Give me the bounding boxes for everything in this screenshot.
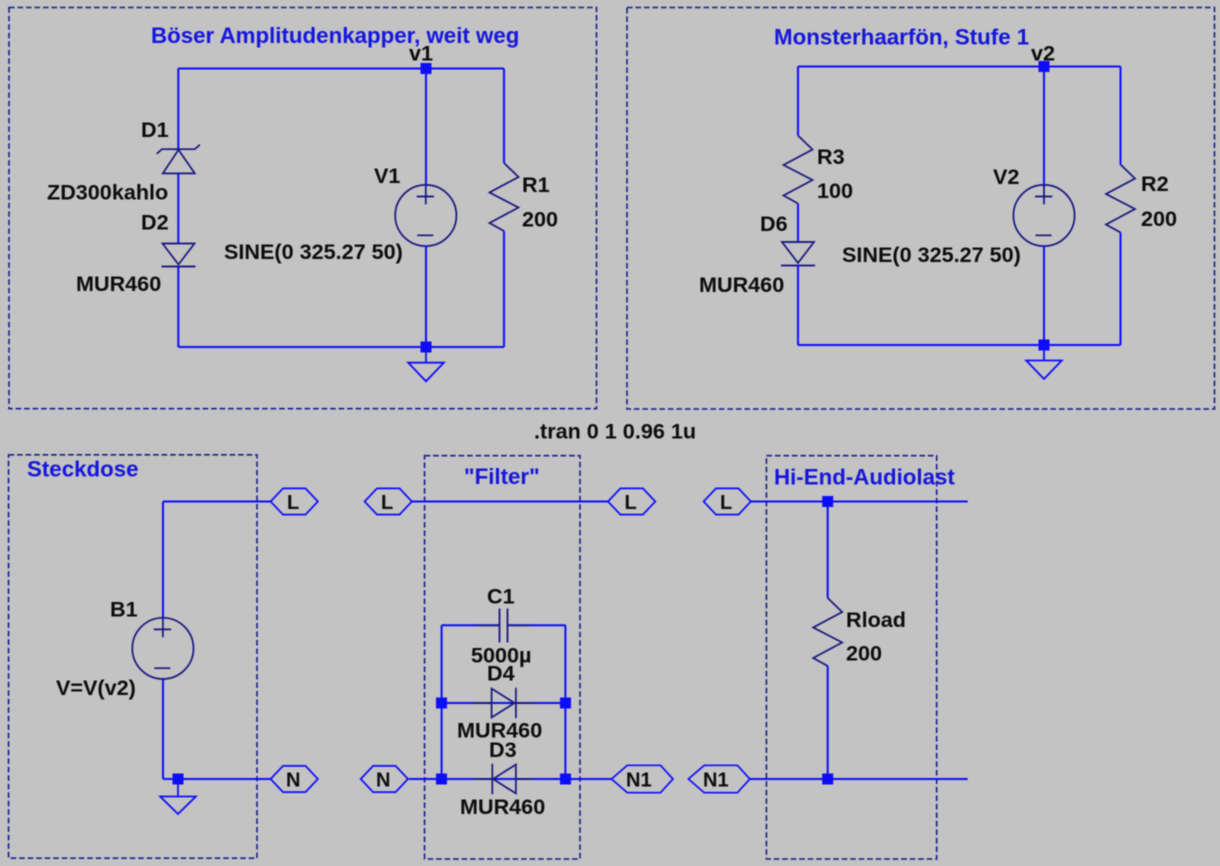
- node L Hi-End: [822, 496, 833, 507]
- wire R2 top: [1120, 67, 1122, 165]
- svg-text:V1: V1: [374, 163, 400, 188]
- port flag L Filter right: [608, 488, 655, 514]
- wire Rload bottom: [827, 666, 829, 779]
- wire R1 bottom: [503, 231, 505, 347]
- wire L row Filter: [412, 501, 608, 503]
- svg-text:D1: D1: [141, 117, 169, 142]
- label MUR460 D6: [699, 272, 784, 297]
- title: Steckdose: [27, 457, 139, 482]
- label 200 R1: [522, 207, 558, 232]
- wire Rload top: [827, 502, 829, 599]
- diode D6: [781, 242, 815, 266]
- ground A: [408, 347, 444, 381]
- label D1: [141, 117, 169, 142]
- port flag L Filter left: [365, 488, 412, 514]
- wire N1 row Hi-End: [750, 778, 968, 780]
- wire R3 to D6: [797, 204, 799, 243]
- diode D4: [474, 688, 535, 718]
- wire bottom A: [178, 346, 504, 348]
- label Rload: [846, 607, 906, 632]
- node D3 right: [560, 774, 571, 785]
- capacitor C1: [478, 609, 529, 643]
- title: Böser Amplitudenkapper, weit weg: [151, 23, 519, 48]
- label SINE V2: [842, 242, 1021, 267]
- svg-text:D3: D3: [489, 737, 517, 762]
- wire B1 bottom: [162, 678, 164, 779]
- svg-text:N: N: [286, 770, 300, 792]
- svg-text:100: 100: [817, 178, 853, 203]
- title: Monsterhaarfön, Stufe 1: [774, 25, 1029, 50]
- svg-text:MUR460: MUR460: [699, 272, 784, 297]
- node bottom A junction: [421, 342, 432, 353]
- svg-text:R3: R3: [817, 144, 845, 169]
- svg-text:L: L: [720, 492, 732, 514]
- port flag L Hi-End: [704, 488, 751, 514]
- svg-text:MUR460: MUR460: [76, 271, 161, 296]
- dashed box: Böser Amplitudenkapper: [9, 8, 597, 409]
- wire V2 top: [1043, 67, 1045, 187]
- label R3: [817, 144, 845, 169]
- port flag N1 Filter: [612, 765, 674, 792]
- svg-text:SINE(0 325.27 50): SINE(0 325.27 50): [842, 242, 1021, 267]
- dashed box: Hi-End-Audiolast: [766, 456, 936, 859]
- svg-text:200: 200: [846, 641, 882, 666]
- svg-text:.tran 0 1 0.96 1u: .tran 0 1 0.96 1u: [534, 419, 696, 444]
- wire filter right vertical: [564, 625, 566, 779]
- svg-text:D6: D6: [760, 211, 788, 236]
- svg-text:200: 200: [1141, 206, 1177, 231]
- wire filter left vertical: [441, 625, 443, 779]
- label D3: [489, 737, 517, 762]
- node D4 right: [560, 698, 571, 709]
- wire left B lower: [797, 266, 799, 346]
- label ZD300kahlo: [47, 180, 168, 205]
- wire V2 bottom: [1043, 246, 1045, 346]
- svg-text:Hi-End-Audiolast: Hi-End-Audiolast: [774, 465, 955, 490]
- node D4 left: [436, 698, 447, 709]
- wire top A: [178, 68, 504, 70]
- label MUR460 D3: [460, 794, 545, 819]
- wire bottom B: [798, 344, 1121, 346]
- port flag N Steckdose: [271, 766, 318, 792]
- svg-text:D4: D4: [487, 661, 515, 686]
- wire between D1 and D2: [177, 174, 179, 244]
- svg-text:R1: R1: [522, 172, 550, 197]
- label B1: [110, 597, 138, 622]
- resistor R3: [784, 136, 813, 204]
- wire N row Filter: [409, 778, 612, 780]
- wire R2 bottom: [1120, 233, 1122, 346]
- diode D3: [474, 764, 535, 794]
- node N1 Hi-End: [822, 774, 833, 785]
- label D2: [141, 210, 169, 235]
- label 200 R2: [1141, 206, 1177, 231]
- svg-text:N1: N1: [703, 770, 729, 792]
- label R2: [1141, 171, 1169, 196]
- label V2: [993, 164, 1019, 189]
- label SINE V1: [224, 239, 403, 264]
- svg-text:SINE(0 325.27 50): SINE(0 325.27 50): [224, 239, 403, 264]
- node D3 left: [436, 774, 447, 785]
- label MUR460 D4: [457, 718, 542, 743]
- svg-text:R2: R2: [1141, 171, 1169, 196]
- label V=V(v2): [56, 675, 136, 700]
- ground C: [160, 779, 196, 814]
- label 5000µ: [471, 643, 531, 668]
- wire left A upper: [177, 69, 179, 149]
- svg-text:L: L: [287, 492, 299, 514]
- label 200 Rload: [846, 641, 882, 666]
- label 100 R3: [817, 178, 853, 203]
- dashed box: Monsterhaarfön: [627, 8, 1215, 410]
- behavioral source B1: [132, 618, 193, 679]
- port flag L Steckdose: [271, 488, 318, 514]
- zener diode D1: [157, 145, 200, 174]
- resistor Rload: [813, 598, 842, 666]
- svg-text:ZD300kahlo: ZD300kahlo: [47, 180, 168, 205]
- voltage source V1: [395, 185, 456, 246]
- svg-text:v1: v1: [409, 41, 433, 66]
- svg-text:V2: V2: [993, 164, 1019, 189]
- svg-text:MUR460: MUR460: [460, 794, 545, 819]
- node v2 junction: [1039, 61, 1050, 72]
- node C junction: [173, 774, 184, 785]
- svg-text:N: N: [376, 770, 390, 792]
- spice directive .tran: [534, 419, 696, 444]
- svg-text:L: L: [625, 492, 637, 514]
- svg-text:Böser Amplitudenkapper, weit w: Böser Amplitudenkapper, weit weg: [151, 23, 519, 48]
- title: Hi-End-Audiolast: [774, 465, 955, 490]
- ground B: [1026, 345, 1062, 379]
- svg-text:L: L: [381, 492, 393, 514]
- wire D4 row: [442, 702, 566, 704]
- svg-text:C1: C1: [487, 584, 515, 609]
- dashed box: Filter: [425, 456, 580, 859]
- resistor R1: [490, 163, 519, 231]
- dashed box: Steckdose: [9, 455, 257, 858]
- wire R1 top: [503, 69, 505, 164]
- svg-text:Rload: Rload: [846, 607, 906, 632]
- node bottom B junction: [1039, 340, 1050, 351]
- wire cap row left: [442, 624, 500, 626]
- label D4: [487, 661, 515, 686]
- wire top B: [798, 66, 1121, 68]
- svg-text:200: 200: [522, 207, 558, 232]
- title: "Filter": [464, 464, 540, 489]
- node v1 junction: [421, 63, 432, 74]
- wire V1 top: [425, 69, 427, 187]
- port flag N Filter: [361, 766, 408, 792]
- wire left A lower: [177, 267, 179, 348]
- wire bottom C: [163, 778, 271, 780]
- label V1: [374, 163, 400, 188]
- wire top C: [163, 501, 271, 503]
- svg-text:B1: B1: [110, 597, 138, 622]
- resistor R2: [1106, 165, 1135, 233]
- node label v1: [409, 41, 433, 66]
- port flag N1 Hi-End: [688, 765, 750, 792]
- svg-text:V=V(v2): V=V(v2): [56, 675, 136, 700]
- wire L row Hi-End: [751, 501, 968, 503]
- svg-text:D2: D2: [141, 210, 169, 235]
- svg-text:Steckdose: Steckdose: [27, 457, 139, 482]
- label R1: [522, 172, 550, 197]
- svg-text:Monsterhaarfön, Stufe 1: Monsterhaarfön, Stufe 1: [774, 25, 1029, 50]
- diode D2: [162, 244, 196, 267]
- wire left B upper: [797, 67, 799, 136]
- wire B1 top: [162, 502, 164, 619]
- svg-text:"Filter": "Filter": [464, 464, 540, 489]
- label MUR460 D2: [76, 271, 161, 296]
- node label v2: [1031, 41, 1055, 66]
- wire V1 bottom: [425, 246, 427, 348]
- label C1: [487, 584, 515, 609]
- wire cap row right: [508, 624, 566, 626]
- voltage source V2: [1013, 185, 1074, 246]
- svg-text:N1: N1: [626, 770, 652, 792]
- label D6: [760, 211, 788, 236]
